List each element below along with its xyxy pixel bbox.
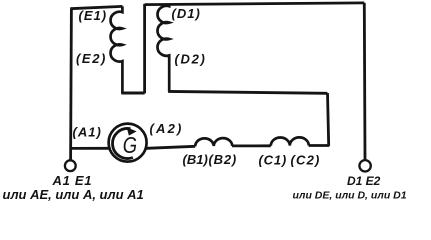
svg-text:(B2): (B2) <box>209 152 237 167</box>
wire notch bottom left <box>121 92 144 95</box>
wire bottom of notch to right drop <box>168 91 327 93</box>
wire top-left horizontal <box>70 6 122 8</box>
wire right vertical (D1E2 drop) <box>363 3 367 159</box>
svg-text:(C1): (C1) <box>259 152 287 167</box>
wire armature left segment <box>70 147 109 150</box>
wire between coils B and C <box>232 144 271 147</box>
wire left vertical (A1E1 riser) <box>69 9 73 160</box>
wire top-right horizontal <box>145 3 365 5</box>
svg-text:A1 E1: A1 E1 <box>52 173 93 188</box>
generator armature circle G <box>109 124 147 162</box>
terminal D1E2 <box>359 160 370 171</box>
svg-text:(B1): (B1) <box>183 152 208 167</box>
svg-text:(D1): (D1) <box>172 6 201 21</box>
inductor E (shunt winding E1-E2) <box>111 6 123 93</box>
inductor C (compensating winding C1-C2) <box>271 137 309 145</box>
svg-text:(E1): (E1) <box>79 8 108 23</box>
svg-text:или DE, или D, или D1: или DE, или D, или D1 <box>293 189 407 201</box>
wire armature right segment to coil B <box>147 146 196 148</box>
inductor B (commutating winding B1-B2) <box>195 138 232 146</box>
svg-text:(D2): (D2) <box>175 52 207 67</box>
wire from coil C to right riser <box>309 144 330 147</box>
svg-text:(A1): (A1) <box>73 125 102 140</box>
svg-text:или AE, или A, или A1: или AE, или A, или A1 <box>3 187 144 202</box>
wire vertical drop to armature line <box>328 93 329 146</box>
svg-text:(C2): (C2) <box>291 152 321 167</box>
svg-text:G: G <box>123 133 137 158</box>
svg-text:D1 E2: D1 E2 <box>347 174 381 188</box>
wire notch vertical riser to top <box>143 4 146 94</box>
terminal A1E1 <box>65 160 76 171</box>
rotation arrowhead <box>127 127 137 135</box>
inductor D (series winding D1-D2) <box>157 4 169 92</box>
svg-text:(E2): (E2) <box>76 51 107 66</box>
rotation arrow arc <box>113 128 133 158</box>
svg-text:(A2): (A2) <box>150 121 184 136</box>
